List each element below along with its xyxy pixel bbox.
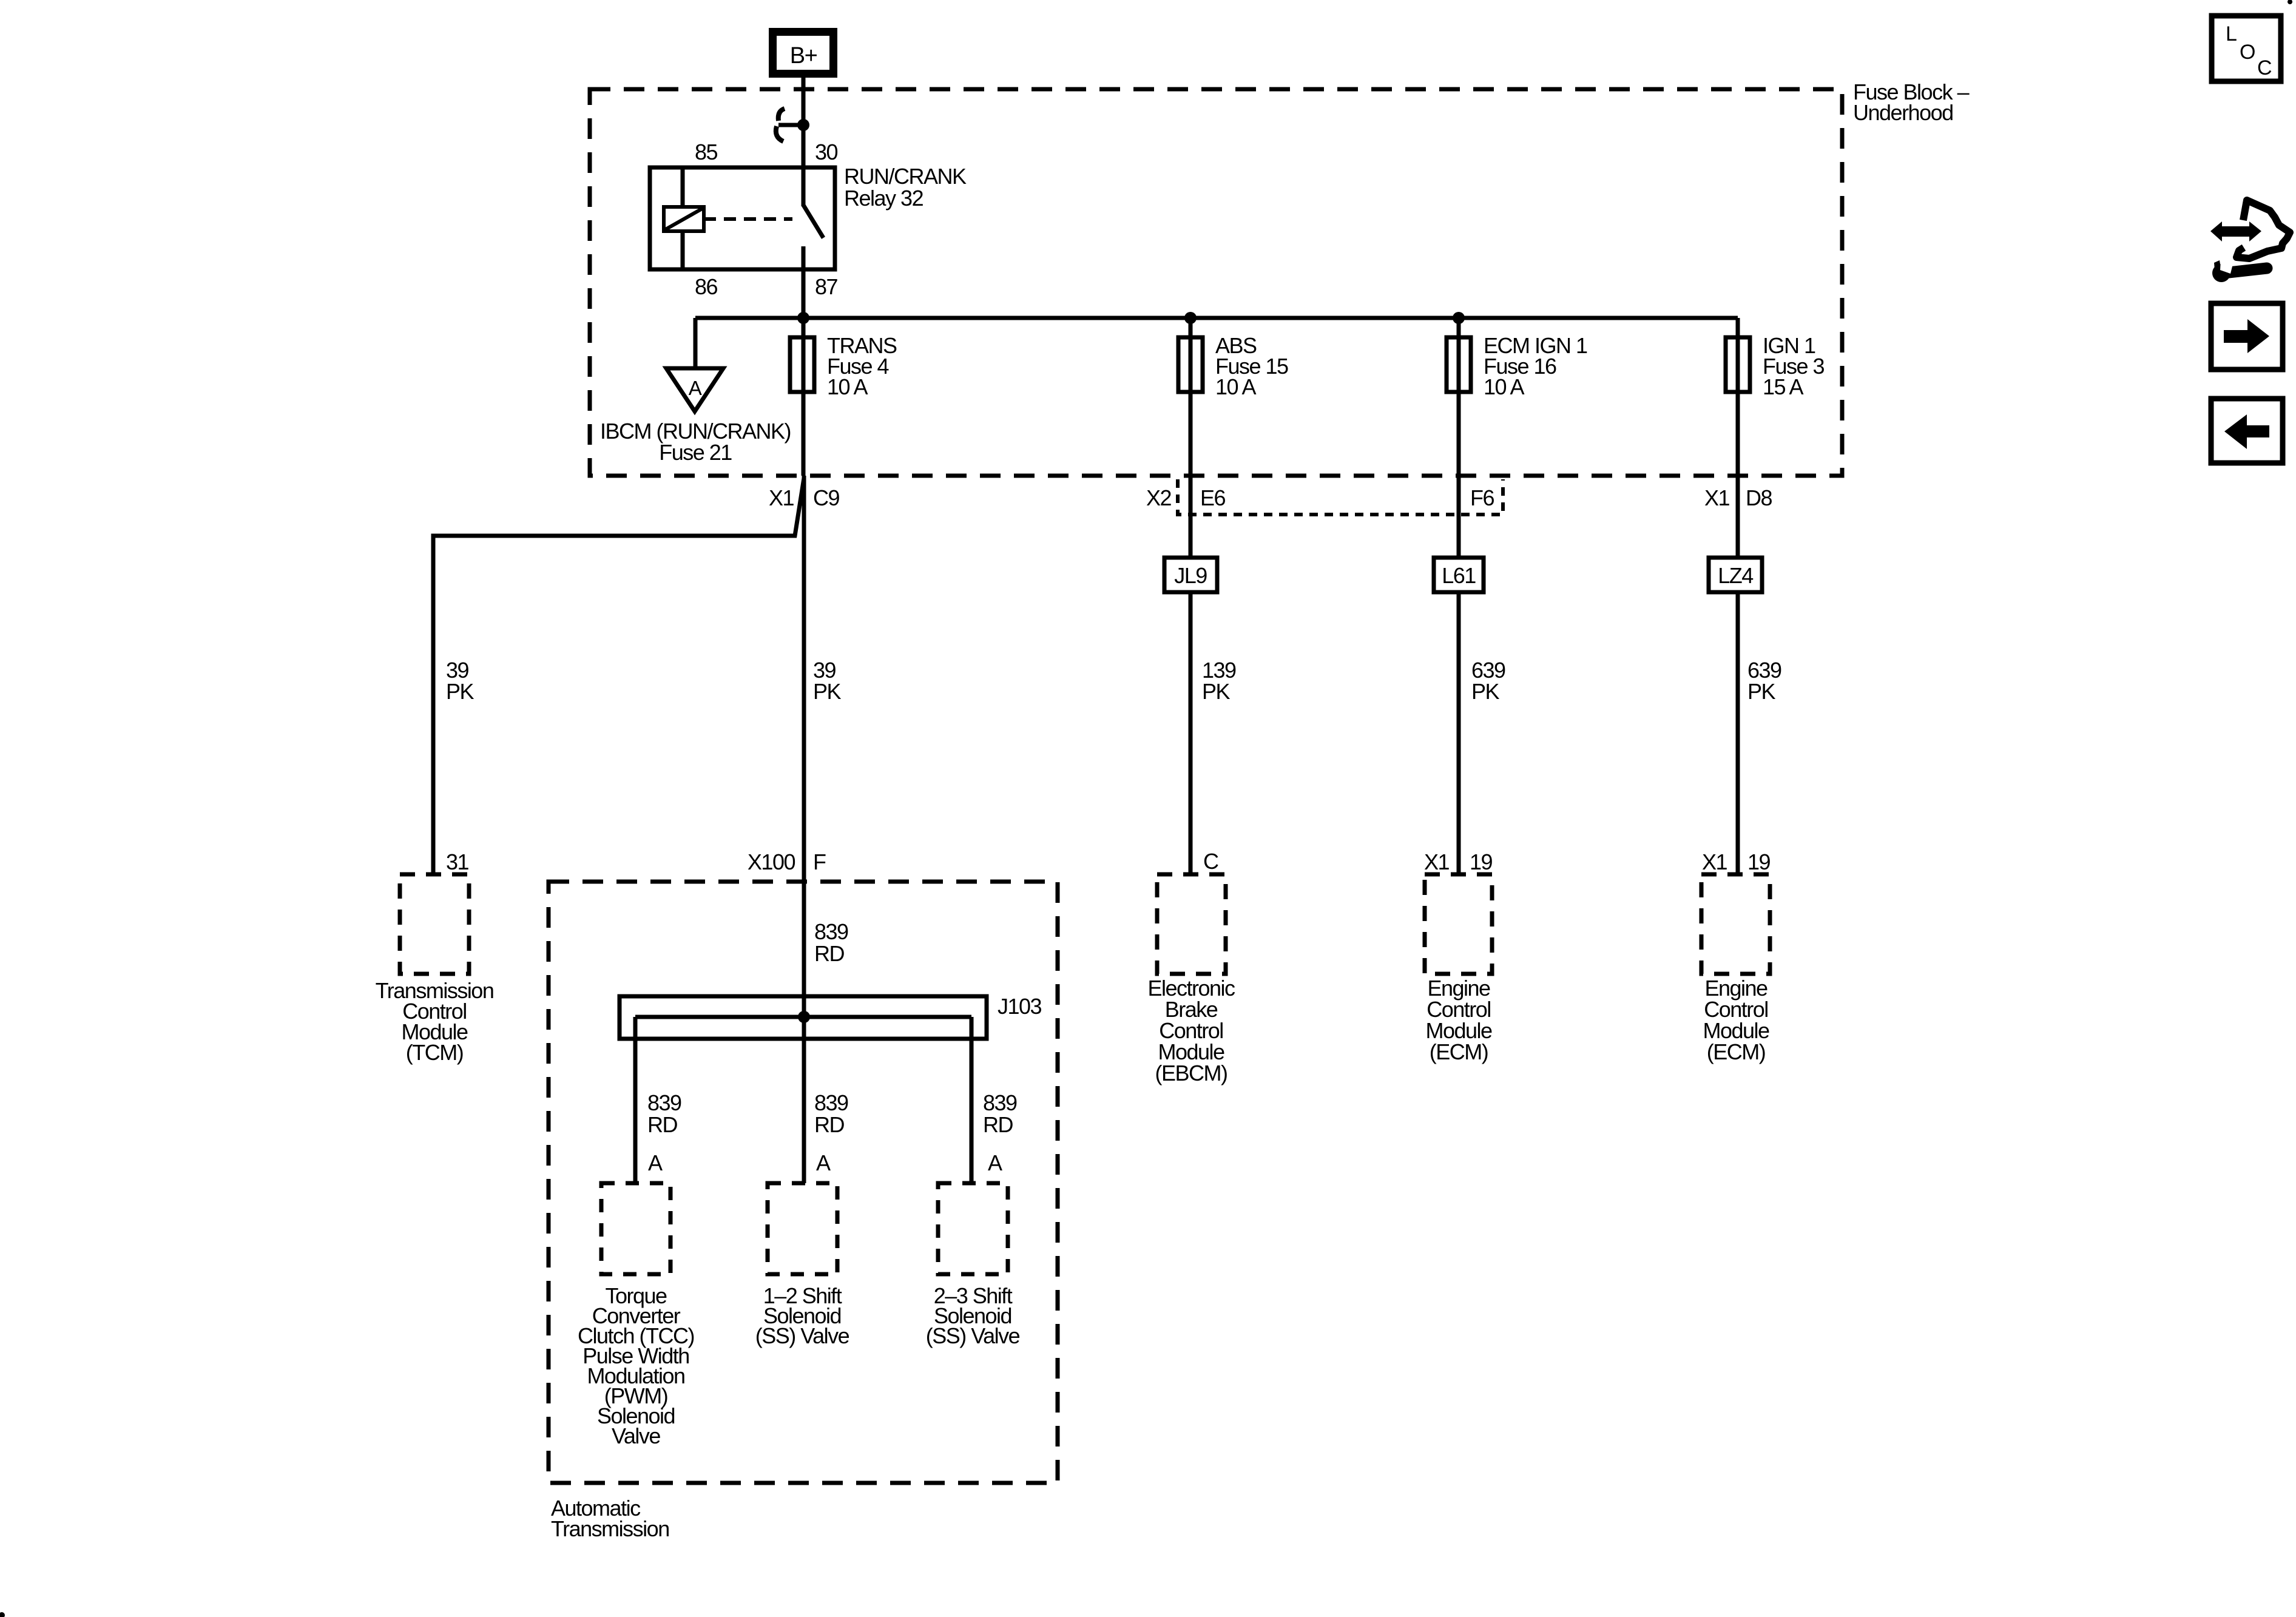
- connector X1 19 (ECM 2): [1702, 849, 1771, 874]
- connector X100 F: [748, 849, 826, 874]
- svg-text:RD: RD: [647, 1112, 677, 1137]
- svg-text:10 A: 10 A: [1484, 374, 1525, 399]
- relay switch blade: [803, 205, 823, 238]
- connector X1 D8: [1704, 485, 1772, 510]
- svg-text:PK: PK: [1747, 679, 1776, 704]
- svg-text:(SS) Valve: (SS) Valve: [755, 1323, 849, 1348]
- svg-text:PK: PK: [1202, 679, 1231, 704]
- TCM dashed box: [400, 874, 469, 974]
- relay coil-contact dashed link: [704, 217, 792, 221]
- label Transmission Control Module (TCM): [376, 978, 494, 1065]
- page corner tick bottom left: [0, 1612, 5, 1617]
- svg-text:PK: PK: [446, 679, 474, 704]
- wire ECM IGN 1 fuse drop: [1457, 318, 1461, 558]
- 1-2 shift solenoid valve dashed box: [768, 1183, 837, 1274]
- automatic transmission dashed boundary: [549, 882, 1058, 1483]
- svg-text:RUN/CRANK: RUN/CRANK: [844, 164, 967, 189]
- svg-text:X1: X1: [1704, 485, 1730, 510]
- wire JL9 to EBCM pin C: [1189, 592, 1193, 874]
- svg-text:31: 31: [446, 849, 469, 874]
- fuse IGN 1 Fuse 3 15 A: [1726, 337, 1750, 392]
- wire label 639 PK (ECM 1): [1471, 658, 1505, 704]
- svg-text:F: F: [813, 849, 826, 874]
- svg-text:LZ4: LZ4: [1718, 563, 1753, 588]
- label Engine Control Module (ECM) 1: [1425, 976, 1492, 1064]
- svg-text:839: 839: [647, 1090, 681, 1115]
- svg-text:86: 86: [695, 274, 718, 299]
- TCC PWM solenoid valve dashed box: [601, 1183, 670, 1274]
- label 2-3 shift solenoid (SS) valve: [926, 1283, 1020, 1348]
- svg-text:A: A: [988, 1150, 1002, 1175]
- wire IGN 1 fuse drop: [1736, 318, 1740, 558]
- svg-text:RD: RD: [814, 941, 844, 966]
- svg-text:(ECM): (ECM): [1707, 1039, 1765, 1064]
- wire bus left branch down to IBCM fuse arrow: [694, 318, 698, 370]
- relay coil: [664, 207, 704, 231]
- svg-text:J103: J103: [998, 994, 1042, 1019]
- svg-text:(SS) Valve: (SS) Valve: [926, 1323, 1020, 1348]
- wire relay pin 87 to bus: [802, 246, 806, 476]
- svg-text:X100: X100: [748, 849, 795, 874]
- fuse ECM IGN 1 Fuse 16 10 A: [1447, 337, 1471, 392]
- wire label 139 PK: [1202, 658, 1236, 704]
- svg-text:Fuse 21: Fuse 21: [659, 440, 732, 465]
- connector X1 C9: [769, 485, 840, 510]
- off-page arrow A to IBCM (RUN/CRANK) Fuse 21: [666, 368, 723, 411]
- svg-text:C: C: [1203, 849, 1218, 874]
- connector X1 19 (ECM 1): [1424, 849, 1493, 874]
- splice pack J103: [620, 996, 987, 1039]
- wire label 839 RD (feed): [814, 919, 848, 966]
- svg-text:839: 839: [814, 919, 848, 944]
- ECM 2 dashed box: [1701, 874, 1770, 974]
- fuse ABS Fuse 15 10 A: [1178, 337, 1203, 392]
- wire branch C9 to TCM pin 31: [433, 478, 804, 874]
- label Electronic Brake Control Module (EBCM): [1147, 976, 1235, 1085]
- wire L61 to ECM 1 pin 19: [1457, 592, 1461, 874]
- RPO code L61: [1434, 558, 1484, 592]
- wire C9 main drop: [802, 476, 806, 1183]
- wire label 839 RD (2-3 shift): [983, 1090, 1017, 1137]
- label Engine Control Module (ECM) 2: [1703, 976, 1769, 1064]
- svg-text:X1: X1: [769, 485, 794, 510]
- EBCM dashed box: [1157, 874, 1226, 974]
- relay RUN/CRANK Relay 32 (U): [650, 167, 835, 269]
- RPO code LZ4: [1709, 558, 1762, 592]
- svg-text:D8: D8: [1746, 485, 1772, 510]
- label IBCM (RUN/CRANK) Fuse 21: [600, 419, 791, 465]
- diagnostic (car and wrench) icon: [2210, 200, 2290, 282]
- svg-text:RD: RD: [983, 1112, 1013, 1137]
- svg-text:(TCM): (TCM): [406, 1040, 463, 1065]
- svg-text:L: L: [2226, 22, 2237, 46]
- label TCC PWM solenoid valve: [578, 1283, 694, 1448]
- svg-text:C: C: [2257, 56, 2272, 79]
- label Automatic Transmission: [551, 1496, 669, 1541]
- wire label 839 RD (TCC): [647, 1090, 681, 1137]
- back arrow icon: [2211, 399, 2283, 463]
- svg-text:O: O: [2240, 41, 2255, 64]
- ECM 1 dashed box: [1425, 874, 1492, 974]
- wire J103 to TCC solenoid: [633, 1017, 638, 1183]
- svg-text:B+: B+: [790, 43, 817, 69]
- fuse TRANS Fuse 4 10 A: [790, 337, 814, 392]
- wire label 839 RD (1-2 shift): [814, 1090, 848, 1137]
- svg-text:87: 87: [815, 274, 838, 299]
- svg-text:85: 85: [695, 140, 718, 164]
- svg-text:Underhood: Underhood: [1853, 100, 1953, 125]
- svg-text:10 A: 10 A: [1215, 374, 1257, 399]
- svg-text:F6: F6: [1470, 485, 1494, 510]
- svg-text:19: 19: [1470, 849, 1493, 874]
- svg-text:RD: RD: [814, 1112, 844, 1137]
- svg-text:839: 839: [983, 1090, 1017, 1115]
- wire label 39 PK (main): [813, 658, 842, 704]
- label Fuse Block - Underhood: [1853, 79, 1970, 125]
- forward arrow icon: [2211, 303, 2283, 370]
- page corner tick top right: [2288, 0, 2292, 4]
- svg-text:A: A: [816, 1150, 831, 1175]
- label 1-2 shift solenoid (SS) valve: [755, 1283, 849, 1348]
- relay label: [844, 164, 967, 211]
- wire J103 to 2-3 shift solenoid: [970, 1017, 974, 1183]
- svg-text:15 A: 15 A: [1763, 374, 1804, 399]
- svg-text:19: 19: [1747, 849, 1771, 874]
- svg-text:L61: L61: [1442, 563, 1476, 588]
- junction dot at ABS fuse tap: [1184, 312, 1197, 324]
- svg-text:X1: X1: [1702, 849, 1727, 874]
- 2-3 shift solenoid valve dashed box: [938, 1183, 1008, 1274]
- svg-text:PK: PK: [813, 679, 842, 704]
- wire LZ4 to ECM 2 pin 19: [1736, 592, 1740, 874]
- junction dot at ECM IGN 1 fuse tap: [1453, 312, 1465, 324]
- svg-text:Valve: Valve: [612, 1423, 660, 1448]
- svg-text:Relay 32: Relay 32: [844, 186, 923, 211]
- junction dot at TRANS fuse tap: [797, 312, 809, 324]
- wire B+ to relay pin 30: [802, 78, 806, 206]
- dashed connector box E6-F6: [1178, 479, 1503, 515]
- power feed B+: [773, 32, 834, 74]
- svg-text:(ECM): (ECM): [1430, 1039, 1488, 1064]
- svg-text:839: 839: [814, 1090, 848, 1115]
- svg-text:X1: X1: [1424, 849, 1450, 874]
- connector X2 E6: [1146, 485, 1226, 510]
- svg-text:(EBCM): (EBCM): [1155, 1061, 1227, 1085]
- wire label 639 PK (ECM 2): [1747, 658, 1781, 704]
- RPO code JL9: [1164, 558, 1217, 592]
- svg-text:E6: E6: [1200, 485, 1226, 510]
- svg-text:A: A: [689, 377, 702, 399]
- LOC legend icon: [2212, 16, 2281, 81]
- svg-text:JL9: JL9: [1174, 563, 1207, 588]
- wire ABS fuse drop: [1189, 318, 1193, 558]
- svg-text:10 A: 10 A: [827, 374, 868, 399]
- splice clip on B+ feed: [776, 109, 809, 141]
- svg-text:30: 30: [815, 140, 838, 164]
- svg-text:X2: X2: [1146, 485, 1172, 510]
- wire label 39 PK (TCM branch): [446, 658, 474, 704]
- svg-text:PK: PK: [1471, 679, 1500, 704]
- svg-text:A: A: [648, 1150, 663, 1175]
- svg-text:C9: C9: [813, 485, 839, 510]
- fuse block underhood dashed boundary: [590, 89, 1842, 476]
- bus wire across fuse block: [695, 316, 1738, 320]
- svg-text:Transmission: Transmission: [551, 1516, 669, 1541]
